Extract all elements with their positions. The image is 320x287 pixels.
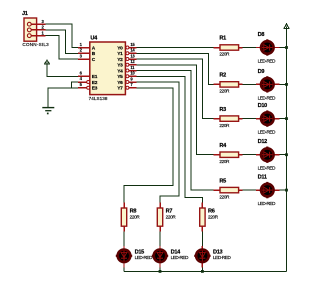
node junction bus/D12: [285, 153, 288, 156]
LED D15: [116, 246, 153, 268]
wire R6 to LED D13: [201, 232, 203, 246]
svg-text:Y3: Y3: [117, 63, 123, 69]
svg-text:2: 2: [42, 25, 45, 30]
svg-text:220R: 220R: [219, 89, 230, 94]
wire Y7 to R8: [124, 88, 173, 203]
svg-text:E3: E3: [92, 86, 98, 92]
wire Y3 to R4: [137, 65, 214, 155]
LED D14: [152, 246, 189, 268]
wire LED D10 to VCC bus: [280, 118, 287, 120]
wire D14 cathode to rail: [159, 268, 161, 272]
svg-text:LED-RED: LED-RED: [258, 59, 276, 64]
svg-text:1: 1: [80, 42, 83, 47]
svg-text:1: 1: [42, 30, 45, 35]
node junction rail/D14: [159, 270, 162, 273]
node junction rail/D13: [201, 270, 204, 273]
svg-text:Y2: Y2: [117, 57, 123, 63]
wire J1 pin1 to U4 pin C: [45, 36, 78, 59]
svg-text:LED-RED: LED-RED: [171, 255, 189, 260]
wire R3 to LED D10: [242, 118, 256, 120]
svg-text:R5: R5: [219, 178, 226, 184]
svg-text:220R: 220R: [219, 123, 230, 128]
node junction bus/D8: [285, 46, 288, 49]
wire R1 to LED D8: [242, 47, 256, 49]
power symbol (VCC) left: [45, 60, 50, 66]
resistor R5: [213, 178, 242, 199]
resistor R4: [213, 143, 242, 164]
LED D12: [256, 139, 280, 171]
wire R8 to LED D15: [123, 232, 125, 246]
svg-text:15: 15: [130, 42, 135, 47]
svg-text:Y4: Y4: [117, 68, 123, 74]
LED D13: [194, 246, 231, 268]
wire power to U4 pin E1: [47, 66, 78, 76]
svg-text:6: 6: [80, 70, 83, 75]
svg-text:220R: 220R: [166, 214, 177, 219]
svg-text:220R: 220R: [219, 52, 230, 57]
svg-text:Y1: Y1: [117, 51, 123, 57]
svg-text:Y0: Y0: [117, 45, 123, 51]
svg-text:LED-RED: LED-RED: [258, 95, 276, 100]
node junction bus/D9: [285, 83, 288, 86]
svg-text:E2: E2: [92, 80, 98, 86]
wire Y1 to R2: [137, 53, 214, 84]
wire LED D9 to VCC bus: [280, 83, 287, 85]
svg-text:D10: D10: [258, 103, 268, 109]
wire D15 cathode to rail: [123, 268, 125, 272]
wire R7 to LED D14: [159, 232, 161, 246]
wire U4 pin E3 to ground: [48, 88, 78, 108]
svg-text:3: 3: [80, 53, 83, 58]
svg-text:220R: 220R: [130, 214, 141, 219]
svg-text:R3: R3: [219, 107, 226, 113]
connector J1: [22, 11, 49, 47]
wire Y4 to R5: [137, 71, 214, 191]
svg-text:LED-RED: LED-RED: [258, 201, 276, 206]
wire Y5 to R6: [137, 76, 203, 202]
wire R5 to LED D11: [242, 189, 256, 191]
svg-text:7: 7: [130, 82, 133, 87]
svg-text:D12: D12: [258, 139, 268, 145]
svg-text:Y5: Y5: [117, 74, 123, 80]
svg-text:R2: R2: [219, 73, 226, 79]
svg-text:LED-RED: LED-RED: [213, 255, 231, 260]
svg-text:14: 14: [130, 48, 135, 53]
wire J1 pin3 to U4 pin A: [45, 24, 78, 47]
resistor R6: [200, 203, 219, 232]
svg-text:R4: R4: [219, 143, 227, 149]
IC U4 74LS138 (3-to-8 decoder): [78, 36, 136, 101]
svg-text:LED-RED: LED-RED: [135, 255, 153, 260]
svg-text:3: 3: [42, 19, 45, 24]
resistor R7: [157, 203, 176, 232]
svg-text:D9: D9: [258, 69, 265, 75]
ground: [42, 108, 54, 115]
svg-text:220R: 220R: [219, 159, 230, 164]
resistor R8: [121, 203, 140, 232]
svg-text:E1: E1: [92, 74, 98, 80]
svg-text:R1: R1: [219, 36, 226, 42]
wire Y6 to R7: [137, 82, 179, 203]
wire R2 to LED D9: [242, 83, 256, 85]
LED D8: [256, 32, 280, 64]
wire LED D8 to VCC bus: [280, 47, 287, 49]
svg-text:U4: U4: [90, 36, 98, 42]
LED D10: [256, 103, 280, 135]
svg-text:Y7: Y7: [117, 86, 123, 92]
svg-text:9: 9: [130, 76, 133, 81]
wire U4 pin E2 to ground net: [71, 82, 78, 88]
svg-text:13: 13: [130, 53, 135, 58]
wire Y2 to R3: [137, 59, 214, 119]
svg-text:CONN-SIL3: CONN-SIL3: [22, 42, 49, 47]
svg-text:D8: D8: [258, 32, 265, 38]
wire LED D12 to VCC bus: [280, 154, 287, 156]
wire D13 cathode to rail: [201, 268, 203, 272]
resistor R3: [213, 107, 242, 128]
power symbol (VCC) top right: [284, 24, 289, 31]
LED D9: [256, 69, 280, 101]
wire Y0 to R1: [137, 47, 214, 49]
resistor R2: [213, 73, 242, 94]
svg-text:LED-RED: LED-RED: [258, 166, 276, 171]
wire J1 pin2 to U4 pin B: [45, 30, 78, 53]
svg-text:11: 11: [130, 65, 135, 70]
svg-text:220R: 220R: [208, 214, 219, 219]
svg-text:220R: 220R: [219, 194, 230, 199]
svg-text:10: 10: [130, 71, 135, 76]
wire R4 to LED D12: [242, 154, 256, 156]
svg-text:LED-RED: LED-RED: [258, 130, 276, 135]
node junction bus/D11: [285, 189, 288, 192]
svg-text:12: 12: [130, 59, 135, 64]
node junction bus/D10: [285, 117, 288, 120]
wire LED D11 to VCC bus: [280, 189, 287, 191]
svg-text:2: 2: [80, 48, 83, 53]
svg-text:D11: D11: [258, 175, 267, 181]
svg-text:74LS138: 74LS138: [89, 96, 108, 101]
wire VCC bus (right vertical): [286, 31, 288, 272]
resistor R1: [213, 36, 242, 57]
svg-text:Y6: Y6: [117, 80, 123, 86]
svg-text:J1: J1: [22, 11, 28, 17]
wire bottom rail: [124, 270, 287, 272]
LED D11: [256, 175, 280, 207]
